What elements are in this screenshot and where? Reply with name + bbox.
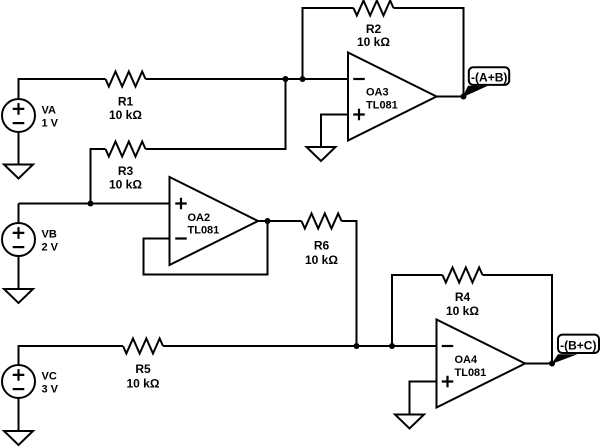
svg-text:R2: R2	[366, 22, 382, 36]
svg-text:R5: R5	[135, 362, 151, 376]
svg-text:10 kΩ: 10 kΩ	[109, 178, 142, 192]
svg-text:OA2: OA2	[188, 212, 211, 224]
output flag -(A+B)	[463, 67, 510, 97]
voltage source VC	[2, 365, 59, 398]
wire node to R2 loop left side	[303, 8, 354, 79]
wire R5 to OA4 inverting input	[163, 345, 437, 347]
svg-text:TL081: TL081	[455, 367, 487, 379]
ground below VA	[4, 165, 33, 179]
wire VB row to OA2 noninverting input	[19, 203, 170, 205]
op-amp OA2	[170, 177, 259, 265]
wire OA4 output stub	[525, 363, 552, 365]
svg-text:2 V: 2 V	[42, 241, 59, 253]
svg-text:-(B+C): -(B+C)	[560, 338, 596, 352]
svg-text:TL081: TL081	[188, 225, 220, 237]
node junction R2 branch on R1 row	[300, 76, 306, 82]
node junction R4 branch on R5 row	[389, 343, 395, 349]
wire R4 loop left side	[392, 275, 443, 346]
svg-text:OA4: OA4	[455, 354, 479, 366]
wire R1 to OA3 inverting input	[146, 78, 349, 80]
voltage source VA	[2, 99, 59, 132]
svg-text:VB: VB	[42, 229, 57, 241]
svg-text:-(A+B): -(A+B)	[471, 71, 507, 85]
svg-text:R1: R1	[118, 95, 134, 109]
wire R4 right side down to OA4 output	[483, 275, 553, 364]
wire R3 right side up to R1 row	[146, 79, 286, 149]
svg-text:10 kΩ: 10 kΩ	[109, 108, 142, 122]
node junction VB row R3 branch	[88, 201, 94, 207]
wire OA4 noninverting input to ground	[410, 382, 437, 415]
wire OA2 feedback loop	[144, 221, 268, 275]
voltage source VB	[2, 223, 59, 256]
wire OA3 output stub	[437, 96, 464, 98]
svg-text:VC: VC	[42, 371, 57, 383]
node junction R6 on R5 row	[354, 343, 360, 349]
svg-text:10 kΩ: 10 kΩ	[446, 304, 479, 318]
ground at OA3 noninverting input	[307, 147, 336, 161]
resistor R2	[354, 1, 394, 50]
svg-text:1 V: 1 V	[42, 117, 59, 129]
resistor R5	[123, 339, 163, 391]
ground at OA4 noninverting input	[395, 415, 424, 429]
output flag -(B+C)	[552, 335, 600, 364]
wire OA3 noninverting input to ground	[321, 115, 348, 148]
node junction R3 branch on R1 row	[283, 76, 289, 82]
svg-text:10 kΩ: 10 kΩ	[127, 377, 160, 391]
svg-text:3 V: 3 V	[42, 383, 59, 395]
wire R3 left side down to VB row	[91, 149, 106, 204]
svg-text:VA: VA	[42, 105, 57, 117]
wire OA2 output stub	[258, 220, 302, 222]
ground below VB	[4, 289, 33, 303]
op-amp OA3	[348, 53, 437, 141]
wire VB bottom to ground	[18, 256, 20, 289]
wire VA bottom to ground	[18, 133, 20, 165]
wire R6 right side down to R5 row	[342, 221, 357, 346]
svg-text:TL081: TL081	[366, 100, 398, 112]
svg-text:OA3: OA3	[366, 87, 389, 99]
svg-text:R3: R3	[118, 164, 134, 178]
node OA2 output junction	[265, 218, 271, 224]
op-amp OA4	[437, 320, 526, 408]
svg-text:10 kΩ: 10 kΩ	[305, 253, 338, 267]
wire R2 right side down to OA3 output	[394, 8, 464, 97]
resistor R1	[106, 72, 146, 123]
ground below VC	[4, 431, 33, 445]
wire VC bottom to ground	[18, 398, 20, 431]
wire VA top to R1 row	[19, 79, 106, 98]
resistor R6	[302, 214, 342, 268]
resistor R3	[106, 142, 146, 192]
node OA3 output junction	[461, 94, 467, 100]
svg-text:R4: R4	[455, 290, 471, 304]
svg-text:R6: R6	[314, 239, 330, 253]
node OA4 output junction	[549, 361, 555, 367]
wire VB top stem	[18, 204, 20, 224]
wire VC top stem to R5 row	[19, 346, 124, 365]
resistor R4	[443, 268, 483, 319]
svg-text:10 kΩ: 10 kΩ	[357, 35, 390, 49]
